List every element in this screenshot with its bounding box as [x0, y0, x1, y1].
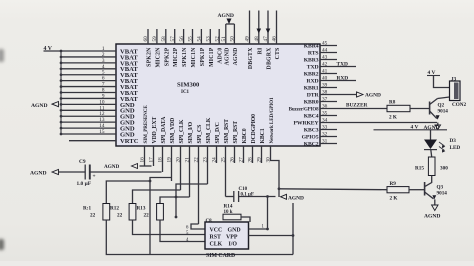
- svg-text:AGND: AGND: [218, 13, 234, 19]
- svg-text:56: 56: [179, 36, 185, 42]
- IC pin label SPI_DATA: [161, 116, 167, 144]
- svg-text:26: 26: [230, 157, 236, 163]
- svg-text:CLK: CLK: [210, 242, 223, 248]
- ground arrow Q2 emitter to 4V/AGND rail: [435, 125, 441, 130]
- connector J3 CON2: [450, 77, 467, 109]
- IC pin label KBC4: [304, 113, 319, 119]
- IC pin label DBGRX: [267, 47, 273, 70]
- svg-text:KBC2: KBC2: [304, 141, 319, 147]
- IC pin 15 GND wire left: [60, 129, 116, 135]
- svg-text:0.1 µF: 0.1 µF: [241, 193, 254, 198]
- svg-text:39: 39: [322, 82, 328, 88]
- wire R14 right to SIM box: [241, 217, 250, 222]
- IC pin label VBAT: [120, 54, 138, 61]
- svg-text:AGND: AGND: [104, 164, 120, 170]
- svg-text:29: 29: [257, 157, 263, 163]
- svg-text:Network LED/GPIO1: Network LED/GPIO1: [269, 97, 275, 144]
- IC pin 18 SPI_DATA bottom stub: [158, 146, 164, 172]
- IC pin label VRTC: [120, 138, 139, 145]
- resistor R8: [387, 100, 410, 121]
- wire SIM GND to AGND node: [249, 195, 269, 230]
- IC pin 30 Network LED/GPIO1 bottom stub: [266, 157, 272, 163]
- IC pin 37 KBR0 wire right: [320, 96, 337, 102]
- IC pin 53 MIC1P top stub: [206, 29, 212, 44]
- svg-text:AGND: AGND: [288, 195, 304, 201]
- svg-text:44: 44: [322, 47, 328, 53]
- IC pin label SPI_D/C: [215, 122, 221, 143]
- IC pin label SPI_CS: [197, 125, 203, 144]
- IC pin 19 SIM_VDD bottom stub: [167, 146, 173, 181]
- wire R9 to Q3 base: [409, 189, 425, 191]
- IC pin 34 PWRKEY wire right: [320, 117, 437, 123]
- IC pin 9 VBAT wire left: [60, 93, 116, 99]
- svg-text:SIM_CLK: SIM_CLK: [206, 117, 212, 143]
- svg-text:23: 23: [203, 157, 209, 163]
- svg-text:DBGTX: DBGTX: [248, 47, 254, 69]
- scan smudge left edge lower: [0, 239, 4, 250]
- IC pin label GND: [120, 114, 135, 121]
- IC pin 16 VRTC wire left: [69, 140, 116, 142]
- SIM pin 1: [262, 225, 265, 230]
- svg-text:RXD: RXD: [306, 78, 318, 84]
- svg-text:57: 57: [170, 36, 176, 42]
- IC pin label SPK2P: [164, 47, 170, 66]
- svg-text:RXD: RXD: [337, 75, 349, 81]
- svg-text:LED: LED: [450, 145, 461, 151]
- svg-text:32: 32: [322, 131, 328, 137]
- svg-text:Buzzer/GPIO8: Buzzer/GPIO8: [289, 107, 319, 112]
- IC pin 14 GND wire left: [60, 123, 116, 129]
- wire pin22 to SIM VCC: [191, 224, 205, 229]
- IC pin label GND: [120, 102, 135, 109]
- IC pin 6 VBAT wire left: [60, 76, 116, 82]
- svg-text:MIC2N: MIC2N: [155, 47, 161, 68]
- svg-text:DBGRX: DBGRX: [267, 47, 273, 70]
- IC pin 38 DTR wire right: [320, 89, 356, 95]
- IC pin 33 KBC3 wire right: [320, 124, 337, 130]
- ground AGND below Q3: [424, 205, 440, 220]
- svg-text:KBR0: KBR0: [304, 99, 319, 105]
- svg-text:KBC1: KBC1: [260, 128, 266, 143]
- svg-text:59: 59: [152, 36, 158, 42]
- svg-text:KBC4: KBC4: [304, 113, 319, 119]
- svg-text:TXD: TXD: [307, 64, 319, 70]
- IC pin 55 MIC1N top stub: [188, 29, 194, 44]
- svg-text:AGND: AGND: [233, 48, 239, 66]
- connector SIM card holder: [205, 222, 249, 249]
- IC pin 54 SPK1P top stub: [197, 29, 203, 44]
- IC pin label KBR3: [304, 57, 319, 63]
- svg-text:49: 49: [245, 36, 251, 42]
- svg-text:51: 51: [221, 36, 227, 42]
- svg-text:SIM CARD: SIM CARD: [206, 253, 235, 259]
- svg-text:33: 33: [322, 124, 328, 130]
- svg-text:47: 47: [263, 36, 269, 42]
- svg-text:R15: R15: [415, 166, 424, 172]
- wire right vertical to AGND node: [292, 203, 294, 255]
- svg-text:50: 50: [230, 36, 236, 42]
- IC pin 41 KBR2 wire right: [320, 68, 337, 74]
- svg-text:41: 41: [322, 68, 328, 74]
- IC pin 51 AGND top stub: [221, 24, 227, 44]
- svg-text:MIC1P: MIC1P: [209, 47, 215, 67]
- IC pin 59 MIC2N top stub: [152, 29, 158, 44]
- svg-text:C9: C9: [79, 159, 86, 165]
- IC pin 29 KBC1 bottom stub: [257, 146, 263, 163]
- power 4V label: [44, 46, 53, 52]
- IC pin 31 KBC2 wire right: [320, 138, 337, 144]
- svg-text:15: 15: [99, 129, 105, 135]
- IC pin 36 Buzzer/GPIO8 wire right: [320, 103, 387, 109]
- IC pin 3 VBAT wire left: [60, 58, 116, 64]
- svg-text:16: 16: [140, 157, 146, 163]
- svg-text:C10: C10: [239, 187, 248, 192]
- IC pin 23 SIM_CLK bottom stub: [203, 146, 209, 184]
- svg-text:AGND: AGND: [424, 125, 440, 131]
- IC pin label GND: [120, 108, 135, 115]
- label C8: [206, 219, 213, 224]
- svg-text:2 K: 2 K: [389, 115, 397, 121]
- svg-text:22: 22: [90, 213, 96, 219]
- svg-text:R:1: R:1: [83, 206, 91, 212]
- svg-text:35: 35: [322, 110, 328, 116]
- svg-text:36: 36: [322, 103, 328, 109]
- IC pin label Buzzer/GPIO8: [289, 107, 319, 112]
- svg-text:J3: J3: [451, 77, 457, 83]
- svg-text:SPI_CS: SPI_CS: [197, 125, 203, 144]
- resistor R11 22: [83, 204, 110, 221]
- wire 4V/left vertical bus: [60, 51, 62, 134]
- svg-text:SPK2P: SPK2P: [164, 47, 170, 66]
- svg-text:SIM_RST: SIM_RST: [224, 119, 230, 144]
- resistor R12 22: [110, 204, 136, 221]
- svg-text:I/O: I/O: [229, 242, 238, 248]
- svg-text:19: 19: [167, 157, 173, 163]
- IC pin label VDD_EXT: [152, 117, 158, 144]
- svg-text:38: 38: [322, 89, 328, 95]
- wire LED cathode to R15: [430, 150, 433, 157]
- wire R15 to Q3 collector: [425, 176, 432, 187]
- IC pin label VBAT: [120, 60, 138, 67]
- resistor R13 22: [137, 204, 164, 221]
- svg-text:VDD_EXT: VDD_EXT: [152, 117, 158, 144]
- svg-text:KBR1: KBR1: [304, 85, 319, 91]
- svg-text:AGND: AGND: [365, 93, 381, 99]
- IC pin label MIC2N: [155, 47, 161, 68]
- IC pin label VBAT: [120, 48, 138, 55]
- IC pin label ADC0: [218, 48, 224, 64]
- svg-text:MIC1N: MIC1N: [191, 47, 197, 68]
- svg-text:21: 21: [185, 157, 191, 163]
- IC pin label SPK1N: [182, 47, 188, 67]
- wire AGND jog pins 51-50: [226, 23, 235, 25]
- IC pin 56 SPK1N top stub: [179, 29, 185, 44]
- IC pin label KBC3: [304, 127, 319, 133]
- svg-text:25: 25: [221, 157, 227, 163]
- svg-text:SPI_CLK: SPI_CLK: [179, 119, 185, 143]
- svg-text:RI: RI: [257, 47, 263, 54]
- IC pin label TXD: [307, 64, 319, 70]
- wire R12 to SIM RST: [133, 220, 206, 235]
- svg-text:BUZZER: BUZZER: [346, 103, 368, 109]
- IC pin 48 RI top stub: [254, 11, 260, 45]
- svg-text:AGND: AGND: [224, 48, 230, 66]
- IC pin label GND: [120, 120, 135, 127]
- IC pin 27 KBC0 bottom stub: [239, 146, 245, 163]
- svg-text:RTS: RTS: [308, 50, 319, 56]
- IC pin 28 DCDGPIO0 bottom stub: [248, 146, 254, 163]
- IC pin 42 TXD wire right: [320, 61, 356, 67]
- wire Q2 collector to J3 pin2: [438, 97, 450, 99]
- IC pin label SIM_CLK: [206, 117, 212, 143]
- IC pin 47 DBGRX top stub: [263, 11, 269, 45]
- svg-text:SIM_I/O: SIM_I/O: [188, 121, 194, 143]
- IC pin 58 SPK2P top stub: [161, 29, 167, 44]
- IC pin 22 SPI_CS bottom stub: [194, 146, 200, 224]
- SIM pin 4: [186, 238, 189, 243]
- capacitor C9 1.0uF: [59, 159, 162, 187]
- IC pin 5 VBAT wire left: [60, 70, 116, 76]
- IC pin 13 GND wire left: [60, 117, 116, 123]
- svg-text:SPK1N: SPK1N: [182, 47, 188, 67]
- svg-text:22: 22: [117, 213, 123, 219]
- IC pin 39 KBR1 wire right: [320, 82, 337, 88]
- IC pin 40 RXD wire right: [320, 75, 356, 81]
- ground AGND top: [218, 13, 234, 24]
- svg-text:SPI_D/C: SPI_D/C: [215, 122, 221, 143]
- svg-text:GPIO5: GPIO5: [302, 134, 319, 140]
- svg-text:SIM300: SIM300: [177, 82, 200, 89]
- IC U1 name label SIM300 IC1: [177, 82, 200, 96]
- svg-text:53: 53: [206, 36, 212, 42]
- ground AGND left arrow: [31, 102, 58, 110]
- wire pin25 to C10: [226, 196, 234, 198]
- IC pin 20 SPI_CLK bottom stub: [176, 146, 182, 190]
- IC pin 50 AGND top stub: [230, 24, 236, 44]
- ground AGND at DTR pin 38: [357, 92, 381, 99]
- wire PWRKEY to Q2 emitter: [437, 123, 439, 127]
- svg-text:SPK2N: SPK2N: [147, 47, 153, 67]
- svg-text:R14: R14: [224, 204, 233, 210]
- svg-text:TXD: TXD: [337, 61, 348, 67]
- wire pin19 jog down to bottom rail: [149, 178, 172, 255]
- net label TXD: [337, 61, 348, 67]
- IC pin 35 KBC4 wire right: [320, 110, 337, 116]
- svg-text:17: 17: [149, 157, 155, 163]
- svg-text:45: 45: [322, 40, 328, 46]
- IC pin 4 VBAT wire left: [60, 64, 116, 70]
- IC pin 32 GPIO5 wire right: [320, 131, 337, 137]
- svg-text:58: 58: [161, 36, 167, 42]
- svg-text:SIM_PRESENCE: SIM_PRESENCE: [143, 105, 149, 144]
- IC pin label RXD: [306, 78, 318, 84]
- svg-text:KBR4: KBR4: [304, 43, 319, 49]
- svg-text:42: 42: [322, 61, 328, 67]
- svg-text:40: 40: [322, 75, 328, 81]
- IC pin 60 SPK2N top stub: [143, 29, 149, 44]
- svg-text:R12: R12: [110, 206, 119, 212]
- label SIM CARD: [206, 253, 235, 259]
- svg-text:46: 46: [272, 36, 278, 42]
- wire net LED-drive from pin 30 to R9: [271, 146, 388, 197]
- svg-text:22: 22: [144, 213, 150, 219]
- svg-text:+: +: [93, 174, 96, 180]
- net label RXD: [337, 75, 349, 81]
- svg-text:37: 37: [322, 96, 328, 102]
- svg-text:AGND: AGND: [424, 214, 440, 220]
- svg-text:4 V: 4 V: [411, 125, 419, 131]
- svg-text:24: 24: [212, 157, 218, 163]
- IC pin label KBR2: [304, 71, 319, 77]
- wire R13 to SIM CLK: [160, 220, 205, 242]
- IC pin 49 DBGTX top stub: [245, 11, 251, 45]
- IC pin label KBR0: [304, 99, 319, 105]
- IC pin label DBGTX: [248, 47, 254, 69]
- IC pin label Network LED/GPIO1: [269, 97, 275, 144]
- resistor R15 300: [415, 157, 448, 176]
- svg-text:RST: RST: [210, 235, 222, 241]
- IC pin 11 GND wire left: [60, 105, 116, 111]
- IC pin 25 SIM_RST bottom stub: [221, 146, 227, 197]
- svg-text:43: 43: [322, 54, 328, 60]
- IC pin label DCDGPIO0: [251, 114, 257, 144]
- IC pin label RI: [257, 47, 263, 54]
- svg-text:PWRKEY: PWRKEY: [294, 120, 319, 126]
- IC pin label SIM_PRESENCE: [143, 105, 149, 144]
- ground AGND mid (C10 node): [281, 194, 304, 201]
- IC pin 8 VBAT wire left: [60, 88, 116, 94]
- svg-text:MIC2P: MIC2P: [173, 47, 179, 67]
- svg-text:D3: D3: [450, 138, 457, 144]
- IC pin label SPK1P: [200, 47, 206, 66]
- IC pin label GND: [120, 131, 135, 138]
- svg-text:DTR: DTR: [307, 92, 320, 98]
- IC pin label AGND: [233, 48, 239, 66]
- wire R11 top feed: [106, 181, 150, 204]
- IC pin label KBC1: [260, 128, 266, 143]
- power rail 4V AGND: [374, 125, 448, 132]
- resistor R14 10k: [223, 204, 241, 220]
- svg-text:2 K: 2 K: [390, 196, 398, 202]
- IC pin label VBAT: [120, 72, 138, 79]
- IC pin 10 GND wire left: [60, 99, 116, 105]
- IC pin label KBC0: [242, 128, 248, 143]
- svg-text:9014: 9014: [438, 109, 449, 115]
- IC pin label KBR1: [304, 85, 319, 91]
- svg-text:IC1: IC1: [181, 90, 190, 95]
- IC pin 2 VBAT wire left: [60, 52, 116, 58]
- svg-text:48: 48: [254, 36, 260, 42]
- IC pin label GPIO5: [302, 134, 319, 140]
- svg-text:CTS: CTS: [275, 48, 281, 60]
- IC pin 1 VBAT wire left: [44, 46, 117, 52]
- svg-text:55: 55: [188, 36, 194, 42]
- IC pin 43 KBR3 wire right: [320, 54, 337, 60]
- IC pin label SIM_VDD: [170, 118, 176, 144]
- IC pin label AGND: [224, 48, 230, 66]
- power 4V at buzzer: [427, 70, 440, 76]
- svg-text:28: 28: [248, 157, 254, 163]
- svg-text:27: 27: [239, 157, 245, 163]
- IC pin label VBAT: [120, 84, 138, 91]
- svg-text:R13: R13: [137, 206, 146, 212]
- IC pin 16 SIM_PRESENCE bottom stub: [140, 146, 146, 166]
- svg-text:SPI_RST: SPI_RST: [233, 121, 239, 144]
- IC pin 45 KBR4 wire right: [320, 40, 337, 46]
- svg-text:22: 22: [194, 157, 200, 163]
- IC U1 SIM300 body: [116, 44, 320, 146]
- svg-text:GND: GND: [228, 228, 241, 234]
- net label BUZZER: [346, 103, 368, 109]
- IC pin label VBAT: [120, 90, 138, 97]
- SIM pin 6: [186, 226, 189, 231]
- IC pin label DTR: [307, 92, 320, 98]
- wire R11 to bottom rail: [106, 220, 293, 255]
- svg-text:VRTC: VRTC: [120, 138, 139, 145]
- IC pin label CTS: [275, 48, 281, 60]
- transistor Q2 9014: [430, 99, 449, 120]
- svg-text:AGND: AGND: [31, 103, 47, 109]
- LED D3: [424, 138, 460, 153]
- IC pin 52 ADC0 top stub: [214, 29, 220, 44]
- ground AGND at C9: [30, 169, 58, 176]
- IC pin 44 RTS wire right: [320, 47, 337, 53]
- svg-text:SPK1P: SPK1P: [200, 47, 206, 66]
- wire 4V to J3 pin1: [434, 76, 450, 88]
- IC pin 57 MIC2P top stub: [170, 29, 176, 44]
- IC pin label KBC2: [304, 141, 319, 147]
- IC pin 46 CTS top stub: [272, 11, 278, 45]
- svg-text:DCDGPIO0: DCDGPIO0: [251, 114, 257, 144]
- IC pin label SIM_I/O: [188, 121, 194, 143]
- arrowhead pin 48: [257, 29, 262, 34]
- svg-text:KBR3: KBR3: [304, 57, 319, 63]
- svg-text:AGND: AGND: [30, 171, 46, 177]
- IC pin 17 VDD_EXT bottom stub: [149, 146, 155, 166]
- wire pin23 to R14 left: [175, 184, 208, 218]
- svg-text:34: 34: [322, 117, 328, 123]
- svg-text:300: 300: [440, 166, 448, 172]
- svg-text:52: 52: [214, 36, 220, 42]
- capacitor C10 0.1uF: [234, 187, 276, 202]
- IC pin label SPI_RST: [233, 121, 239, 144]
- IC pin 7 VBAT wire left: [60, 82, 116, 88]
- IC pin 26 SPI_RST bottom stub: [230, 146, 236, 163]
- IC pin label MIC2P: [173, 47, 179, 67]
- wire SIM VPP to right vertical: [249, 234, 295, 237]
- svg-text:1.0 µF: 1.0 µF: [77, 181, 92, 187]
- wire Q3 emitter down: [434, 199, 436, 205]
- svg-text:VPP: VPP: [226, 235, 238, 241]
- transistor Q3 9014: [425, 182, 448, 199]
- resistor R9 2K: [387, 181, 409, 201]
- wire pin21 to R13: [160, 197, 190, 204]
- svg-text:CON2: CON2: [452, 102, 467, 108]
- IC pin 12 GND wire left: [60, 111, 116, 117]
- IC pin label VBAT: [120, 66, 138, 73]
- IC pin label PWRKEY: [294, 120, 319, 126]
- svg-text:R8: R8: [389, 100, 396, 106]
- svg-text:R9: R9: [390, 181, 397, 187]
- IC pin label SPI_CLK: [179, 119, 185, 143]
- svg-text:54: 54: [197, 36, 203, 42]
- svg-text:18: 18: [158, 157, 164, 163]
- IC pin label VBAT: [120, 96, 138, 103]
- svg-text:SPI_DATA: SPI_DATA: [161, 116, 167, 144]
- IC pin label MIC1N: [191, 47, 197, 68]
- svg-text:10 k: 10 k: [224, 210, 233, 215]
- svg-text:KBR2: KBR2: [304, 71, 319, 77]
